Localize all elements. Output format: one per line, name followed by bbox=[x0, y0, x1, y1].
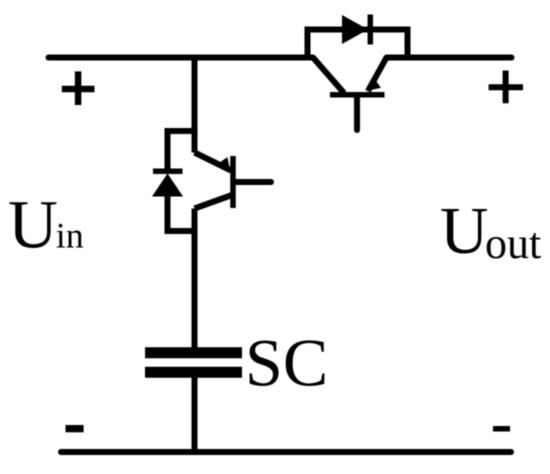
svg-text:U: U bbox=[440, 194, 488, 268]
svg-text:U: U bbox=[8, 187, 58, 263]
svg-text:in: in bbox=[56, 216, 84, 256]
svg-text:out: out bbox=[485, 219, 541, 268]
svg-text:SC: SC bbox=[245, 325, 328, 401]
